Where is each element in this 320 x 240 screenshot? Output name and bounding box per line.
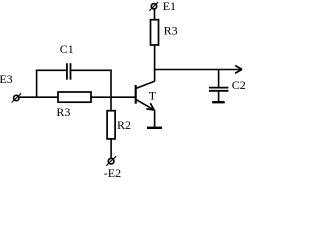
wire C1 branch right vertical <box>110 70 112 98</box>
ground bar emitter <box>147 127 162 129</box>
wire output rail <box>154 69 241 71</box>
resistor R2 <box>107 111 115 139</box>
svg-text:E3: E3 <box>0 72 13 86</box>
wire C1 branch right horizontal <box>71 69 112 71</box>
wire C2 stem top <box>218 70 220 88</box>
capacitor C2 <box>209 88 229 91</box>
svg-text:C2: C2 <box>232 78 246 92</box>
svg-text:R3: R3 <box>56 105 70 119</box>
wire E1 to R3 top <box>154 9 156 20</box>
wire R3 right to transistor base <box>91 96 136 98</box>
transistor T emitter arrowhead <box>146 103 154 110</box>
terminal E3 <box>12 93 22 102</box>
wire C1 branch left horizontal <box>36 69 66 71</box>
svg-text:-E2: -E2 <box>104 166 121 180</box>
wire R2 bottom stem <box>110 139 112 159</box>
resistor R3 horizontal <box>58 92 91 102</box>
resistor R3 vertical <box>151 20 159 45</box>
transistor T base bar <box>135 85 137 104</box>
svg-text:R3: R3 <box>164 23 178 37</box>
terminal -E2 <box>106 156 116 166</box>
wire R2 top stem <box>110 97 112 111</box>
svg-text:E1: E1 <box>163 0 176 13</box>
terminal E1 <box>149 2 158 11</box>
wire C1 branch left vertical <box>36 70 38 98</box>
wire emitter stem <box>154 110 156 128</box>
capacitor C1 <box>67 63 71 79</box>
svg-text:R2: R2 <box>117 118 131 132</box>
transistor T collector stroke <box>136 81 154 88</box>
wire C2 stem bottom <box>218 91 220 101</box>
wire input to R3 left <box>19 96 59 98</box>
ground bar C2 <box>212 101 225 103</box>
svg-text:T: T <box>149 89 157 103</box>
wire R3 bottom to collector <box>154 45 156 81</box>
svg-text:C1: C1 <box>60 42 74 56</box>
output arrow <box>235 66 242 74</box>
transistor T emitter stroke <box>136 100 153 110</box>
